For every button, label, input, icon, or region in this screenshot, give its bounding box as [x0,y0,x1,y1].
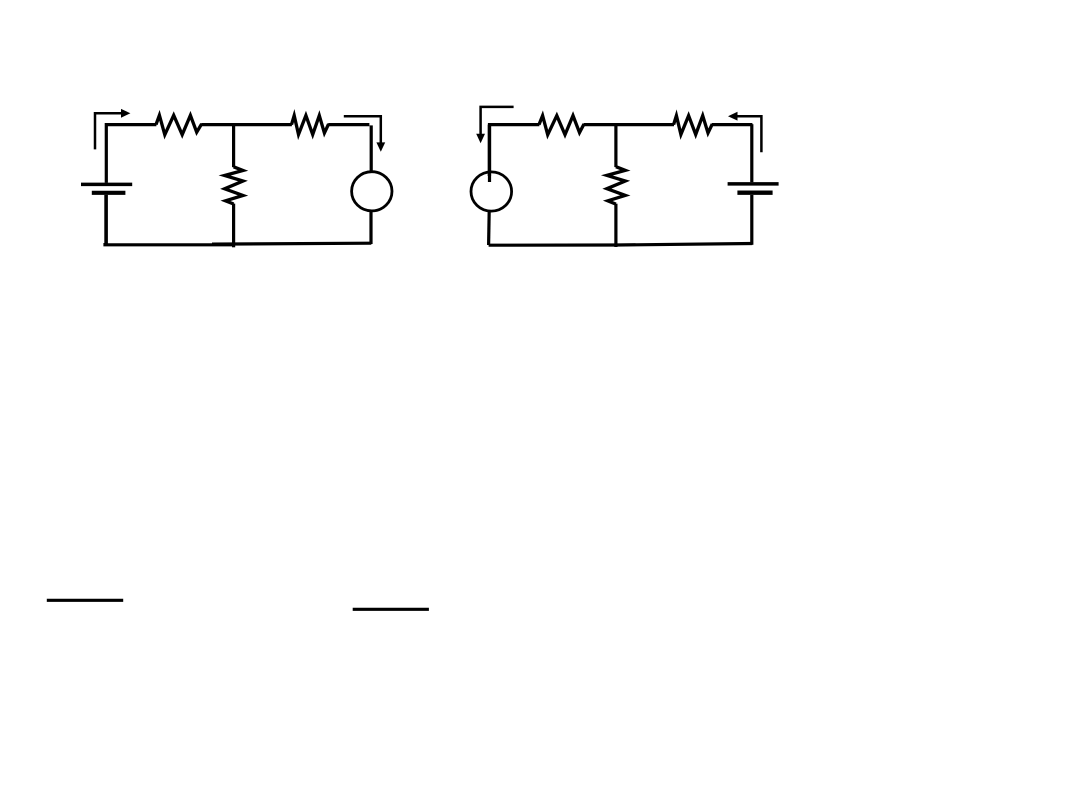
wire: left circuit top-right segment [328,123,369,126]
battery V1 plate + (long, left circuit) [81,183,132,187]
battery V2 plate - (short thick, right circuit) [737,191,772,195]
current arrow i2 (left circuit, top-right, pointing down) [344,116,385,152]
wire: right circuit left vertical lower [487,211,491,245]
wire: left circuit right vertical upper [370,125,373,172]
battery V1 plate - (short thick, left circuit) [92,191,126,195]
wire: right circuit bottom [489,244,753,246]
battery V2 plate + (long, right circuit) [728,182,779,186]
current arrow i1 (left circuit, top-left, pointing right) [95,109,130,149]
answer blank line 2 (lower middle-left) [353,608,429,611]
current source I1 (circle, left circuit right side) [352,172,392,211]
wire: right circuit top-left segment [490,125,540,182]
wire: left circuit middle node vertical lower [232,204,235,248]
wire: right circuit right vertical upper [750,124,753,182]
wire: right circuit top middle segment [584,123,674,126]
resistor R3 (left circuit, middle vertical zigzag) [225,167,243,204]
resistor R6 (right circuit, middle vertical zigzag) [607,167,625,204]
answer blank line 1 (lower left) [47,599,123,602]
current arrow i3 (right circuit, top-left, pointing down) [476,107,513,143]
wire: left circuit top middle segment [201,123,292,126]
wire: right circuit right vertical lower (battery to bottom) [750,195,753,245]
wire: left circuit middle node vertical upper [232,123,235,167]
wire: left circuit left vertical lower (battery to bottom) [104,195,108,246]
resistor R1 (left circuit, top left zigzag) [156,115,202,134]
wire: left circuit bottom [212,242,371,246]
wire: left circuit right vertical lower [369,211,372,244]
resistor R4 (right circuit, top left zigzag) [539,116,584,135]
current arrow i4 (right circuit, top-right, pointing left) [728,112,761,153]
current source I2 (circle, right circuit left side) [471,172,512,211]
wire: left circuit top-left segment [106,125,156,183]
resistor R2 (left circuit, top right zigzag) [292,116,329,135]
wire: right circuit top-right segment [712,123,753,126]
wire: left circuit bottom left part [105,243,233,245]
wire: right circuit left vertical between circle top and top wire [488,125,491,176]
wire: right circuit middle node vertical upper [614,123,617,167]
wire: right circuit middle node vertical lower [614,204,617,247]
resistor R5 (right circuit, top right zigzag) [674,116,713,135]
